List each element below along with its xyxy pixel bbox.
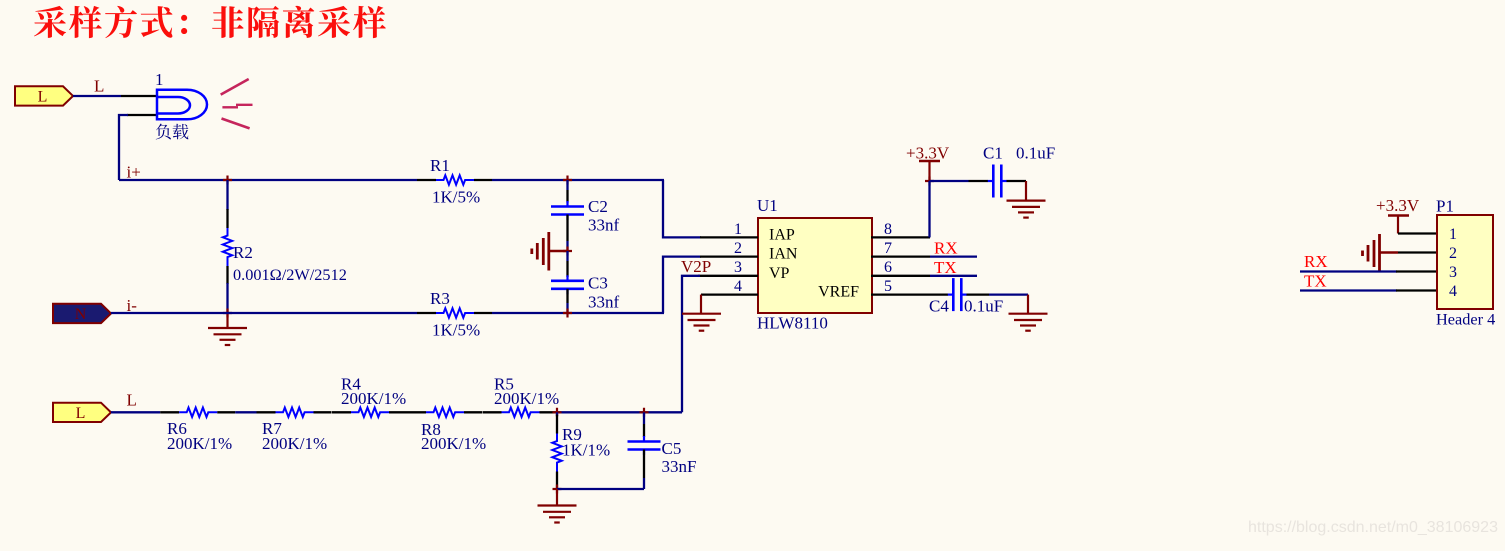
junction C3 bottom [563,309,572,318]
svg-text:+3.3V: +3.3V [906,144,950,163]
light ray upper [221,79,249,95]
load bottom pin wire [127,114,158,116]
svg-text:i+: i+ [127,163,141,182]
wire stub C2 top [566,180,568,190]
C2 top lead [566,190,568,203]
svg-text:1K/5%: 1K/5% [432,188,480,207]
U1 pin 8 lead [871,236,930,238]
junction +3.3V [925,177,934,186]
U1 pin 5 lead [871,293,948,295]
wire R2 top stub [226,180,228,210]
resistor R2 [226,209,228,228]
P1 pin 1 lead [1398,232,1437,234]
svg-text:IAN: IAN [769,246,798,263]
P1 pin 2 lead [1398,251,1437,253]
ground at i- rail [226,313,228,328]
U1 pin 7 lead [871,255,930,257]
C3 top lead [566,261,568,277]
resistor R9 [556,412,558,416]
svg-text:7: 7 [884,240,892,257]
svg-text:2: 2 [1449,245,1457,262]
wire R5 to V2P riser [558,411,683,413]
svg-text:Header 4: Header 4 [1436,310,1495,329]
port L (live input) [15,86,73,105]
IC U1 HLW8110 body [758,218,872,313]
svg-text:4: 4 [1449,283,1457,300]
svg-text:TX: TX [1304,272,1327,291]
svg-text:V2P: V2P [681,257,711,276]
svg-text:R3: R3 [430,289,450,308]
svg-text:1: 1 [734,221,742,238]
capacitor C3 [551,279,584,282]
svg-text:VREF: VREF [818,284,859,301]
P1 pin 4 lead [1396,289,1437,291]
svg-text:200K/1%: 200K/1% [167,434,232,453]
svg-text:C3: C3 [588,274,608,293]
wire i- rail right [492,312,664,314]
capacitor C2 [551,205,584,208]
junction at R2 bottom [223,309,232,318]
svg-text:33nF: 33nF [662,457,697,476]
wire stub C3 bottom [566,303,568,313]
U1 pin 6 lead [871,275,930,277]
svg-text:L: L [94,77,104,96]
resistor R7 [257,411,276,413]
svg-text:RX: RX [934,239,958,258]
U1 pin 1 lead [700,236,758,238]
wire RX [930,255,977,257]
svg-text:4: 4 [734,278,742,295]
svg-text:1K/5%: 1K/5% [432,321,480,340]
junction at R2 top [223,176,232,185]
capacitor C1 [992,165,995,198]
wire TX to P1 [1300,289,1397,291]
svg-text:6: 6 [884,259,892,276]
load pin 1 wire [121,95,158,97]
earth ground at P1 [1378,234,1381,273]
svg-text:33nf: 33nf [588,293,620,312]
wire V2P [682,276,700,413]
C4 right lead [967,293,990,295]
svg-text:C4: C4 [929,297,949,316]
power +3.3V bar [919,160,940,163]
C1 right lead [1007,180,1027,182]
wire down from load [119,115,128,180]
wire pin8 to +3.3V [928,181,930,237]
U1 pin 2 lead [700,255,758,257]
wire +3.3V to C1 [930,180,969,182]
wire R9 bottom to C5 [557,488,644,490]
svg-text:C5: C5 [662,439,682,458]
svg-text:33nf: 33nf [588,216,620,235]
wire C4 to ground [989,293,1028,295]
ground at U1 pin4 [700,295,702,314]
svg-text:C2: C2 [588,197,608,216]
wire R2 bottom stub [226,283,228,313]
C5 top lead [643,424,645,437]
svg-text:5: 5 [884,278,892,295]
light ray middle [222,106,238,108]
wire i+ rail left [119,179,417,181]
junction C2 top [563,176,572,185]
svg-text:200K/1%: 200K/1% [421,434,486,453]
junction R9 bottom [553,485,562,494]
wire i- rail left [111,312,417,314]
wire L to R6 [111,411,160,413]
svg-text:0.1uF: 0.1uF [964,297,1003,316]
load lamp symbol 负载 [157,90,207,120]
svg-text:0.1uF: 0.1uF [1016,144,1055,163]
wire R6-R7 [235,411,256,413]
svg-text:3: 3 [734,259,742,276]
capacitor C5 [628,440,661,443]
svg-text:1K/1%: 1K/1% [562,441,610,460]
wire rise to pin2 [663,257,701,313]
U1 pin 4 lead [701,293,758,295]
light ray lower [222,119,250,129]
svg-text:P1: P1 [1436,197,1454,216]
svg-text:IAP: IAP [769,226,795,243]
ground at C1 [1025,181,1027,201]
junction mid [563,247,572,256]
resistor R6 [160,411,179,413]
svg-text:2: 2 [734,240,742,257]
resistor R5 [483,411,502,413]
wire [73,95,121,97]
ground at R9/C5 [556,489,558,505]
svg-text:C1: C1 [983,144,1003,163]
wire stub mid bottom [566,251,568,261]
resistor R3 [417,312,436,314]
svg-text:RX: RX [1304,252,1328,271]
P1 pin 3 lead [1396,270,1437,272]
svg-text:200K/1%: 200K/1% [494,389,559,408]
svg-text:+3.3V: +3.3V [1376,196,1420,215]
earth ground symbol [549,250,568,253]
svg-text:HLW8110: HLW8110 [757,314,828,333]
C3 bottom lead [566,289,568,303]
svg-text:N: N [75,306,87,323]
junction C5 top [640,408,649,417]
wire RX to P1 [1300,270,1397,272]
port N (neutral input) [53,304,111,323]
load label 负载 [156,124,189,140]
svg-text:200K/1%: 200K/1% [341,389,406,408]
wire stub mid top [566,241,568,251]
svg-text:L: L [127,391,137,410]
svg-text:1: 1 [1449,226,1457,243]
svg-text:https://blog.csdn.net/m0_38106: https://blog.csdn.net/m0_38106923 [1248,519,1498,536]
resistor R1 [417,179,436,181]
svg-text:0.001Ω/2W/2512: 0.001Ω/2W/2512 [233,265,347,284]
svg-text:TX: TX [934,258,957,277]
resistor R8 [407,411,426,413]
port L bottom [53,403,111,422]
wire C5 bottom stub [643,478,645,489]
capacitor C4 [952,278,955,311]
connector P1 body [1437,215,1493,309]
svg-text:L: L [76,405,86,422]
svg-text:L: L [38,88,48,105]
wire i+ rail right [492,179,664,181]
wire C5 top stub [643,412,645,424]
svg-text:200K/1%: 200K/1% [262,434,327,453]
wire drop to pin1 [663,180,701,237]
C1 left lead [969,180,989,182]
power +3.3V bar P1 [1388,214,1409,217]
svg-text:R2: R2 [233,243,253,262]
svg-text:R1: R1 [430,156,450,175]
resistor R4 [332,411,351,413]
C5 bottom lead [643,450,645,479]
svg-text:1: 1 [155,70,164,89]
svg-text:3: 3 [1449,264,1457,281]
svg-text:8: 8 [884,221,892,238]
ground at C4 [1027,295,1029,314]
junction R9 top [553,408,562,417]
title text 采样方式：非隔离采样 [34,6,386,38]
C2 bottom lead [566,215,568,242]
svg-text:VP: VP [769,265,790,282]
U1 pin 3 lead [698,275,758,277]
wire TX [930,275,977,277]
svg-text:U1: U1 [757,196,778,215]
